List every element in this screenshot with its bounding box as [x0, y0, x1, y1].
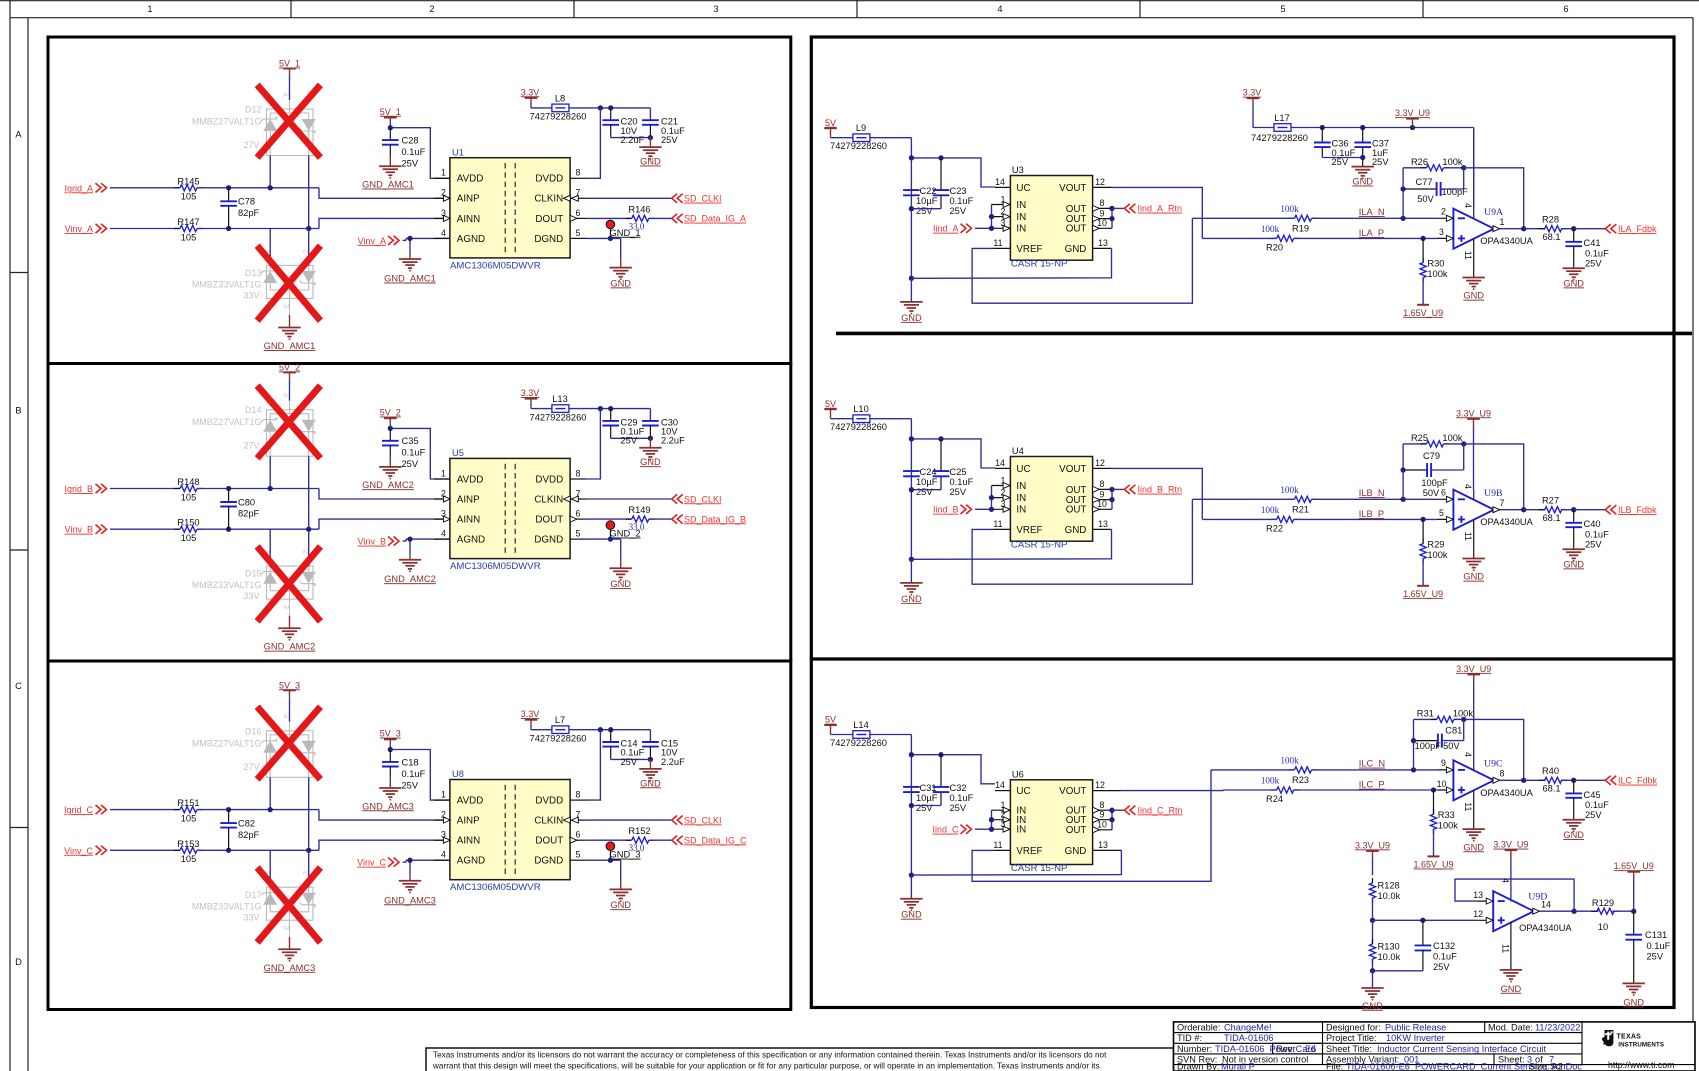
svg-text:7: 7	[1500, 498, 1505, 508]
svg-text:AGND: AGND	[457, 856, 485, 867]
svg-text:D12: D12	[245, 105, 262, 115]
pin 2 AINP of U5	[434, 498, 450, 500]
junction output/feedback	[1521, 507, 1526, 512]
power 1.65V_U9 (below R29)	[1417, 585, 1429, 587]
junction C37	[1360, 125, 1365, 130]
wire 3.3V rail after L7	[569, 729, 651, 731]
svg-text:http://www.ti.com: http://www.ti.com	[1608, 1060, 1674, 1070]
svg-text:100k: 100k	[1427, 269, 1448, 279]
svg-text:74279228260: 74279228260	[1251, 133, 1308, 143]
wire divider to pin 12	[1373, 919, 1478, 921]
svg-text:100k: 100k	[1280, 485, 1299, 495]
svg-text:Murali P: Murali P	[1221, 1062, 1255, 1071]
op-amp U9B OPA4340UA	[1453, 490, 1494, 530]
wire U9D feedback loop	[1455, 879, 1574, 911]
svg-text:9: 9	[1100, 489, 1105, 499]
svg-text:1: 1	[147, 4, 152, 14]
wire Igrid_B to R148	[110, 488, 179, 490]
svg-text:R20: R20	[1266, 243, 1283, 253]
svg-text:0.1uF: 0.1uF	[1647, 941, 1671, 951]
current sensor U3 CASR 15-NP	[1010, 176, 1092, 261]
svg-text:Project Title:: Project Title:	[1326, 1033, 1377, 1043]
pin 3 AINN of U8	[434, 839, 450, 841]
ground GND (at DGND)	[620, 259, 622, 268]
svg-text:GND_AMC1: GND_AMC1	[264, 341, 316, 351]
svg-text:Sheet Title:: Sheet Title:	[1326, 1044, 1372, 1054]
svg-text:GND: GND	[1563, 830, 1584, 840]
inner sheet border	[27, 18, 29, 1071]
svg-text:GND: GND	[1463, 291, 1484, 301]
no-fit cross over DD14	[257, 386, 320, 459]
wire ILC_N	[1211, 769, 1295, 771]
svg-text:DVDD: DVDD	[535, 474, 563, 485]
diode DD12 27V (crossed out)	[261, 100, 316, 156]
capacitor C131 0.1uF 25V	[1633, 911, 1635, 935]
svg-text:4: 4	[441, 228, 446, 238]
svg-text:100k: 100k	[1261, 224, 1280, 234]
svg-text:UC: UC	[1016, 183, 1030, 194]
TI logo	[1602, 1030, 1613, 1046]
power 1.65V_U9 (below R30)	[1417, 304, 1429, 306]
svg-text:1.65V_U9: 1.65V_U9	[1403, 308, 1443, 318]
svg-text:C32: C32	[950, 783, 967, 793]
svg-text:5: 5	[1280, 4, 1285, 14]
wire DD14/DD15 legs	[269, 529, 271, 566]
resistor R130 10.0k	[1372, 920, 1374, 943]
svg-text:TEXAS: TEXAS	[1617, 1034, 1642, 1041]
junction DGND	[608, 236, 613, 241]
svg-text:R27: R27	[1542, 495, 1559, 505]
svg-text:25V: 25V	[1372, 157, 1389, 167]
pin 9 OUT of U6	[1093, 819, 1112, 821]
pin 13 GND of U4	[1093, 528, 1112, 530]
wire R153 to AINN	[197, 849, 319, 851]
junction 3.3V_U9 power tap	[1410, 125, 1415, 130]
pin 2 AINP of U1	[434, 197, 450, 199]
svg-text:VREF: VREF	[1016, 846, 1042, 857]
svg-text:5V: 5V	[825, 399, 836, 409]
capacitor C23 0.1uF 25V	[940, 158, 942, 190]
svg-text:Inductor Current Sensing Inter: Inductor Current Sensing Interface Circu…	[1377, 1044, 1546, 1054]
svg-text:GND: GND	[640, 457, 661, 467]
svg-text:74279228260: 74279228260	[830, 422, 887, 432]
svg-text:82pF: 82pF	[238, 509, 260, 519]
svg-text:100pF: 100pF	[1442, 187, 1469, 197]
svg-text:U3: U3	[1012, 165, 1024, 175]
ground GND (3.3V decoupling)	[1352, 166, 1374, 168]
pin 10 OUT of U3	[1093, 227, 1112, 229]
port SD_Data_IG_A	[672, 214, 677, 223]
wire 5V_3 to AVDD pin 1	[390, 750, 450, 801]
svg-text:2: 2	[1441, 206, 1446, 216]
svg-text:R153: R153	[177, 839, 199, 849]
wire R151 to AINP	[197, 809, 319, 811]
svg-text:E6: E6	[1305, 1044, 1316, 1054]
svg-text:ILC_N: ILC_N	[1359, 759, 1385, 769]
ground GND (output C41)	[1563, 267, 1585, 269]
power 1.65V_U9 (below R33)	[1428, 855, 1440, 857]
svg-text:5V_3: 5V_3	[380, 729, 401, 739]
wire IN pins tie	[991, 205, 993, 229]
svg-text:C77: C77	[1415, 177, 1432, 187]
ground GND (output C40)	[1563, 548, 1585, 550]
resistor R146 33.0	[586, 217, 631, 219]
svg-text:4: 4	[1463, 203, 1473, 208]
svg-text:2.2uF: 2.2uF	[661, 757, 685, 767]
port ILA_Fdbk	[1574, 228, 1606, 230]
svg-text:105: 105	[181, 492, 197, 502]
pin 8 OUT of U3	[1093, 207, 1112, 209]
junction U9D output	[1571, 909, 1576, 914]
svg-text:33V: 33V	[243, 591, 259, 601]
net label GND_2 marker	[606, 521, 615, 530]
svg-text:TIDA-01606: TIDA-01606	[1224, 1033, 1274, 1043]
pin 5 DGND of U1	[570, 237, 586, 239]
pin 10 OUT of U4	[1093, 508, 1112, 510]
junction Igrid_A/DD12	[268, 185, 273, 190]
svg-text:GND_2: GND_2	[610, 529, 641, 539]
pin 5 DGND of U8	[570, 859, 586, 861]
capacitor C22 10µF 25V	[903, 189, 920, 191]
pin 11 V- of U9A	[1473, 239, 1475, 277]
ground GND_AMC1 (at AGND)	[409, 255, 411, 259]
svg-text:AVDD: AVDD	[457, 474, 484, 485]
isolated modulator U5 AMC1306M05DWVR	[450, 458, 570, 558]
svg-text:12: 12	[1095, 458, 1105, 468]
pin 14 UC of U6	[995, 790, 1010, 792]
pin 4 V+ of U9A	[1473, 128, 1475, 219]
junction C29/C30 ground	[648, 436, 653, 441]
svg-text:11: 11	[1463, 251, 1473, 260]
junction output RC	[1571, 226, 1576, 231]
svg-text:4: 4	[1500, 878, 1510, 883]
wire pin13 to ground rail	[911, 529, 1111, 559]
svg-text:1.65V_U9: 1.65V_U9	[1614, 861, 1654, 871]
svg-text:A: A	[15, 130, 22, 140]
svg-text:MMBZ27VALT1G: MMBZ27VALT1G	[192, 117, 262, 127]
svg-text:13: 13	[1098, 840, 1108, 850]
capacitor C25 0.1uF 25V	[940, 439, 942, 471]
svg-text:R148: R148	[177, 477, 199, 487]
wire VREF loop	[972, 218, 1192, 303]
wire DGND to ground	[586, 538, 621, 540]
svg-text:CASR 15-NP: CASR 15-NP	[1011, 540, 1068, 551]
ferrite bead L7 74279228260	[552, 726, 569, 734]
wire ILA_P	[1202, 237, 1276, 239]
svg-text:0.1uF: 0.1uF	[1585, 800, 1609, 810]
junction C36	[1320, 125, 1325, 130]
op-amp U9A OPA4340UA	[1453, 209, 1494, 249]
svg-text:L7: L7	[555, 715, 565, 725]
svg-text:MMBZ33VALT1G: MMBZ33VALT1G	[192, 280, 262, 290]
junction Vinv_C/DD16	[306, 848, 311, 853]
svg-text:4: 4	[1463, 484, 1473, 489]
svg-text:25V: 25V	[402, 780, 419, 790]
ground GND_AMC2 (below DD15)	[289, 599, 291, 616]
svg-text:Vinv_A: Vinv_A	[65, 224, 93, 234]
svg-text:GND_AMC3: GND_AMC3	[362, 801, 414, 811]
resistor R29 100k (to 1.65V_U9)	[1422, 519, 1424, 543]
pin 4 AGND of U1	[434, 237, 450, 239]
isolated modulator U8 AMC1306M05DWVR	[450, 780, 570, 880]
svg-text:GND_3: GND_3	[610, 850, 641, 860]
svg-text:VOUT: VOUT	[1059, 183, 1086, 194]
svg-text:3.3V_U9: 3.3V_U9	[1456, 408, 1491, 418]
svg-text:GND: GND	[1065, 244, 1087, 255]
capacitor C24 10µF 25V	[903, 470, 920, 472]
pin 4 V+ of U9C	[1473, 761, 1475, 771]
junction DGND	[608, 536, 613, 541]
wire 3.3V rail after L13	[569, 408, 651, 410]
junction C132 top	[1420, 918, 1425, 923]
svg-text:GND_AMC2: GND_AMC2	[362, 480, 414, 490]
outer sheet border	[9, 0, 11, 1071]
pin 8 OUT of U4	[1093, 488, 1112, 490]
pin 10 non-inverting input of U9C	[1437, 789, 1453, 791]
pin 11 VREF of U4	[993, 528, 1010, 530]
svg-text:13: 13	[1473, 890, 1483, 900]
disclaimer box	[426, 1048, 1174, 1071]
junction C bottoms	[909, 487, 914, 492]
wire Vinv_A to AGND pin 4	[403, 239, 407, 241]
svg-text:12: 12	[1095, 780, 1105, 790]
junction IN2	[989, 495, 994, 500]
svg-text:4: 4	[441, 529, 446, 539]
svg-text:IN: IN	[1016, 200, 1026, 211]
svg-text:OPA4340UA: OPA4340UA	[1519, 923, 1572, 933]
junction C20 top	[608, 105, 613, 110]
svg-text:25V: 25V	[402, 159, 419, 169]
svg-text:100k: 100k	[1442, 157, 1463, 167]
svg-text:10: 10	[1097, 218, 1107, 228]
pin 12 non-inverting input of U9D	[1477, 919, 1493, 921]
svg-text:U4: U4	[1012, 446, 1024, 456]
svg-text:27V: 27V	[243, 762, 259, 772]
svg-text:R33: R33	[1438, 810, 1455, 820]
wire VREF loop	[972, 770, 1211, 881]
resistor R153 105	[174, 849, 180, 851]
wire DVDD pin to rail	[586, 108, 600, 178]
svg-text:11: 11	[993, 238, 1002, 248]
svg-text:25V: 25V	[1647, 951, 1664, 961]
junction feedback R26/C77	[1461, 165, 1466, 170]
pin 1 output of U9A	[1493, 226, 1500, 232]
pin 7 CLKIN of U8	[570, 819, 586, 821]
wire 5V rail after L9	[870, 137, 912, 139]
resistor R149 33.0	[586, 518, 631, 520]
svg-text:68.1: 68.1	[1542, 513, 1560, 523]
svg-text:50V: 50V	[1423, 488, 1440, 498]
pin 4 AGND of U8	[434, 859, 450, 861]
svg-text:12: 12	[1473, 909, 1483, 919]
junction C81 left	[1411, 738, 1416, 743]
svg-text:9: 9	[1441, 758, 1446, 768]
svg-text:R28: R28	[1542, 214, 1559, 224]
svg-text:74279228260: 74279228260	[830, 738, 887, 748]
svg-text:D13: D13	[245, 268, 262, 278]
ground GND (op-amp U9A)	[1473, 276, 1475, 278]
junction ground rail	[909, 872, 914, 877]
svg-text:GND: GND	[1563, 559, 1584, 569]
svg-text:100k: 100k	[1438, 821, 1459, 831]
svg-text:10µF: 10µF	[916, 793, 938, 803]
junction 5V/C24	[909, 436, 914, 441]
svg-text:ILB_N: ILB_N	[1359, 488, 1385, 498]
resistor R27 68.1 (output)	[1524, 509, 1546, 511]
svg-text:GND_AMC1: GND_AMC1	[362, 180, 414, 190]
title block frame	[1174, 1022, 1696, 1071]
pin 1 IN of U3	[992, 204, 1011, 206]
resistor R33 100k (to 1.65V_U9)	[1433, 790, 1435, 814]
svg-text:GND: GND	[901, 594, 922, 604]
svg-text:SD_CLKI: SD_CLKI	[684, 194, 722, 204]
svg-text:1.65V_U9: 1.65V_U9	[1403, 589, 1443, 599]
svg-text:4: 4	[1463, 752, 1473, 757]
svg-text:CLKIN: CLKIN	[534, 816, 563, 827]
wire R150 to AINN	[197, 528, 319, 530]
svg-text:AVDD: AVDD	[457, 796, 484, 807]
svg-text:25V: 25V	[950, 803, 967, 813]
svg-text:0.1uF: 0.1uF	[950, 793, 974, 803]
net label GND_1 marker	[606, 220, 615, 229]
junction Vinv_A/DD12	[306, 226, 311, 231]
svg-text:GND: GND	[610, 579, 631, 589]
pin 8 DVDD of U8	[570, 799, 586, 801]
svg-text:OPA4340UA: OPA4340UA	[1480, 236, 1533, 246]
svg-text:14: 14	[995, 780, 1005, 790]
svg-text:82pF: 82pF	[238, 830, 260, 840]
capacitor C37 1uF 25V	[1362, 128, 1364, 143]
pin 3 IN of U4	[992, 508, 1011, 510]
wire 5V rail after L10	[870, 418, 912, 420]
port SD_Data_IG_C	[672, 836, 677, 845]
svg-text:U6: U6	[1012, 769, 1024, 779]
svg-text:VOUT: VOUT	[1059, 786, 1086, 797]
ground GND (below decoupling)	[649, 759, 651, 768]
isolated modulator U1 AMC1306M05DWVR	[450, 158, 570, 258]
svg-text:14: 14	[1541, 900, 1551, 910]
wire pin13 to ground rail	[911, 850, 1121, 875]
svg-text:R23: R23	[1292, 775, 1309, 785]
pin 11 VREF of U6	[993, 849, 1010, 851]
svg-text:8: 8	[1100, 198, 1105, 208]
svg-text:R152: R152	[628, 826, 650, 836]
wire DVDD pin to rail	[586, 409, 600, 479]
svg-text:VOUT: VOUT	[1059, 464, 1086, 475]
capacitor C20 10V 2.2uF	[610, 108, 612, 120]
svg-text:U1: U1	[452, 147, 464, 157]
block frame phase A (left top)	[48, 37, 791, 364]
svg-text:25V: 25V	[950, 206, 967, 216]
svg-text:Number:: Number:	[1177, 1044, 1212, 1054]
svg-text:GND: GND	[610, 900, 631, 910]
svg-text:10.0k: 10.0k	[1378, 952, 1401, 962]
svg-text:100pF: 100pF	[1415, 741, 1442, 751]
ferrite bead L13 74279228260	[552, 405, 569, 413]
svg-text:C40: C40	[1584, 519, 1601, 529]
svg-text:68.1: 68.1	[1542, 232, 1560, 242]
svg-text:L10: L10	[853, 404, 869, 414]
ground GND (op-amp U9C)	[1473, 828, 1475, 830]
pin 2 IN of U3	[992, 216, 1011, 218]
junction Vinv_B/AGND	[407, 536, 412, 541]
pin 8 DVDD of U5	[570, 478, 586, 480]
wire DD16/DD17 legs	[269, 850, 271, 887]
ground GND (CASR)	[910, 278, 912, 301]
pin 7 output of U9B	[1493, 507, 1500, 513]
svg-text:6: 6	[1563, 4, 1568, 14]
svg-text:1: 1	[441, 168, 446, 178]
svg-text:11: 11	[1463, 802, 1473, 811]
junction DVDD rail	[598, 727, 603, 732]
diode DD17 33V (crossed out)	[261, 887, 316, 920]
svg-text:Vinv_B: Vinv_B	[65, 525, 93, 535]
svg-text:DGND: DGND	[534, 535, 563, 546]
svg-text:3: 3	[282, 714, 291, 718]
svg-text:3.3V: 3.3V	[521, 87, 540, 97]
block frame phase C (left bottom)	[48, 661, 791, 1010]
svg-text:OPA4340UA: OPA4340UA	[1480, 517, 1533, 527]
svg-text:ILA_N: ILA_N	[1359, 207, 1385, 217]
svg-text:5: 5	[576, 529, 581, 539]
wire OUT pins tie	[1111, 208, 1113, 228]
capacitor C32 0.1uF 25V	[940, 755, 942, 787]
wire Igrid_A to R145	[110, 187, 179, 189]
junction Vinv_C/C82	[226, 848, 231, 853]
ground GND (at DGND)	[620, 559, 622, 568]
junction divider bottom	[1370, 968, 1375, 973]
junction ILC_P/R33	[1431, 787, 1436, 792]
svg-text:R149: R149	[628, 505, 650, 515]
pin 13 GND of U3	[1093, 247, 1112, 249]
svg-text:TID #:: TID #:	[1177, 1033, 1202, 1043]
junction Vinv_C/AGND	[407, 858, 412, 863]
svg-text:GND_1: GND_1	[610, 228, 641, 238]
svg-text:2.2uF: 2.2uF	[621, 135, 645, 145]
svg-text:0.1uF: 0.1uF	[402, 448, 426, 458]
ground GND (U9D)	[1500, 969, 1522, 971]
pin 8 OUT of U6	[1093, 809, 1112, 811]
pin 1 AVDD of U5	[434, 478, 450, 480]
port Iind_B_Rtn	[1112, 488, 1124, 490]
svg-text:C78: C78	[238, 197, 255, 207]
svg-text:2: 2	[429, 4, 434, 14]
pin 1 IN of U4	[992, 485, 1011, 487]
wire IN pins tie	[991, 486, 993, 510]
wire R148 to AINP	[197, 488, 319, 490]
svg-text:C35: C35	[402, 436, 419, 446]
wire 5V_3 to DD16	[289, 690, 291, 698]
svg-text:C41: C41	[1584, 238, 1601, 248]
svg-text:L8: L8	[555, 93, 565, 103]
svg-text:GND: GND	[1463, 572, 1484, 582]
wire DD12/DD13 legs	[269, 229, 271, 266]
svg-text:0.1uF: 0.1uF	[1585, 529, 1609, 539]
svg-text:1.65V_U9: 1.65V_U9	[1413, 860, 1453, 870]
svg-text:6: 6	[576, 509, 581, 519]
junction IN3	[989, 827, 994, 832]
svg-text:warrant that this design will: warrant that this design will meet the s…	[432, 1062, 1100, 1071]
svg-text:R130: R130	[1378, 941, 1400, 951]
svg-text:11/23/2022: 11/23/2022	[1535, 1023, 1580, 1033]
svg-text:100k: 100k	[1427, 550, 1448, 560]
svg-text:0.1uF: 0.1uF	[1433, 952, 1457, 962]
svg-text:R24: R24	[1266, 794, 1283, 804]
junction 1.65V_U9 output	[1631, 909, 1636, 914]
svg-text:AINP: AINP	[457, 816, 480, 827]
svg-text:3: 3	[1439, 227, 1444, 237]
pin 4 AGND of U5	[434, 538, 450, 540]
